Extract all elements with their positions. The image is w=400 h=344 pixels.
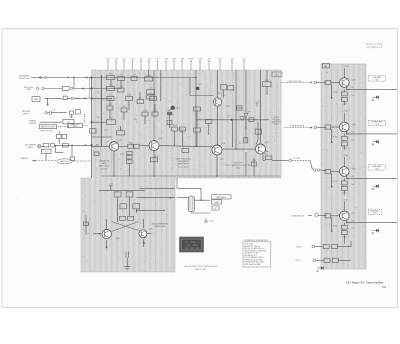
wire lamp top <box>177 187 201 189</box>
junction <box>101 98 102 99</box>
wire link <box>236 107 242 109</box>
wire row4 <box>343 223 345 226</box>
junction <box>67 77 68 78</box>
resistor R28 <box>172 127 178 131</box>
resistor R51 <box>114 192 121 197</box>
svg-text:+: + <box>136 152 137 154</box>
svg-text:R153: R153 <box>226 106 230 108</box>
wire stub down <box>266 86 268 95</box>
wire <box>123 112 125 120</box>
resistor to ground trig row <box>69 111 73 118</box>
wire Q7 emitter <box>143 239 145 247</box>
wire bias drop row4 <box>331 218 333 230</box>
wire <box>196 132 198 146</box>
wire Q5 collector up <box>260 70 262 144</box>
resistor R21 <box>221 84 227 90</box>
svg-text:R147: R147 <box>173 125 177 127</box>
wire bottom bus <box>102 175 281 177</box>
label box SWEEP GATE <box>32 97 40 102</box>
emitter resistor row1b <box>341 97 347 101</box>
dashed wire row2 input <box>284 127 312 129</box>
wire link rows <box>73 78 75 89</box>
svg-text:R169: R169 <box>252 160 256 162</box>
connector row6 <box>313 259 316 262</box>
ground dot row2 <box>331 141 333 143</box>
wire Q7 collector <box>143 219 145 228</box>
wire row3 into base <box>320 169 327 172</box>
transistor Q6 <box>102 229 111 238</box>
resistor R124 <box>137 100 144 104</box>
label box AC <box>42 149 51 153</box>
wire drop <box>189 78 191 96</box>
resistor row5 b <box>332 244 338 248</box>
junction <box>217 144 218 145</box>
wire lamp left <box>177 197 188 199</box>
capacitor C3 box <box>70 157 75 161</box>
wire row1 <box>343 89 345 92</box>
svg-text:1.8k: 1.8k <box>351 139 354 141</box>
power stub +12V at x=220 <box>219 61 221 71</box>
svg-text:Q185: Q185 <box>116 238 120 240</box>
transistor Q205 <box>340 78 350 88</box>
wire drop <box>47 98 49 105</box>
transistor Q3 <box>213 98 221 106</box>
svg-text:C43: C43 <box>119 86 122 88</box>
wire <box>117 197 119 222</box>
junction Q7 emitter <box>143 242 145 244</box>
output label box row1 <box>368 76 385 81</box>
junction ext row <box>71 145 72 146</box>
power stub +150 at x=124 <box>123 61 125 71</box>
wire <box>109 99 111 106</box>
wire mid bus <box>196 119 269 121</box>
svg-text:R121: R121 <box>109 74 113 76</box>
board label box A2 <box>322 63 329 68</box>
wire output row4 <box>347 222 397 224</box>
connector hook row6 <box>317 266 324 272</box>
base resistor row4 <box>325 214 331 218</box>
svg-text:+150V: +150V <box>343 111 349 113</box>
resistor R14 <box>147 90 155 94</box>
reference designations notes box <box>243 242 271 267</box>
arrowhead down <box>47 104 49 106</box>
wire <box>120 126 122 131</box>
svg-text:R157: R157 <box>265 80 269 82</box>
svg-text:R47: R47 <box>108 104 111 106</box>
svg-text:Q225: Q225 <box>352 169 356 171</box>
power stub +12V at x=174 <box>173 61 175 71</box>
stub cap <box>109 185 113 187</box>
svg-text:R159: R159 <box>264 154 268 156</box>
wire row C <box>92 98 113 100</box>
svg-text:12: 12 <box>239 143 241 145</box>
wire bus x160 <box>160 70 162 101</box>
resistor R7 <box>62 134 67 138</box>
arrowhead down Q6 <box>106 247 108 249</box>
arrowhead <box>85 144 87 146</box>
svg-text:RESISTORS 1/4W 5%: RESISTORS 1/4W 5% <box>244 246 260 248</box>
wire row3 down <box>343 190 345 194</box>
label box SAW AMPLITUDE <box>212 195 232 199</box>
junction <box>216 175 217 176</box>
wire down to junction <box>200 188 202 200</box>
connector hook row2 <box>372 140 379 146</box>
wire main path seg3 <box>139 145 149 147</box>
wire collector row2 <box>343 113 345 123</box>
resistor R13 <box>145 77 153 81</box>
output label box row4 <box>368 209 381 214</box>
svg-text:+150V: +150V <box>343 66 349 68</box>
svg-text:R131: R131 <box>108 95 112 97</box>
wire drop to Q4 <box>232 120 234 147</box>
edge junction tick <box>91 88 93 90</box>
connector J2a <box>37 87 39 89</box>
resistor R54 <box>120 204 127 209</box>
wire Q3 emitter down <box>217 106 219 145</box>
pot box R5 <box>63 120 74 124</box>
wire left <box>85 215 87 235</box>
transistor Q5 <box>256 144 266 154</box>
resistor R19 <box>117 131 125 135</box>
svg-text:+150V: +150V <box>343 199 349 201</box>
wire to block <box>47 77 92 79</box>
connector J4 inner <box>39 146 41 148</box>
svg-text:R143: R143 <box>129 142 133 144</box>
transistor Q7 <box>139 230 147 238</box>
connector hook row3 <box>372 184 379 190</box>
wire row A <box>92 77 197 79</box>
capacitor C122 <box>118 88 125 92</box>
bus wire vertical left <box>101 75 103 146</box>
shaded region: main amplifier block <box>81 70 281 272</box>
output label box row2 <box>368 120 385 125</box>
svg-text:Q195: Q195 <box>149 229 153 231</box>
resistor R165 <box>237 106 242 110</box>
wire lamp right <box>195 199 211 201</box>
wire row3 <box>343 178 345 181</box>
svg-text:-150V: -150V <box>342 237 348 239</box>
svg-text:UNLESS NOTED OTHERWISE: UNLESS NOTED OTHERWISE <box>244 250 266 252</box>
emitter resistor row3b <box>341 186 347 190</box>
wire row5 into column <box>338 246 352 248</box>
wire main path seg5 <box>222 148 255 150</box>
resistor R126 <box>107 106 113 110</box>
wire down <box>253 158 255 176</box>
wire <box>44 88 62 90</box>
resistor R34 <box>151 158 158 162</box>
svg-text:+150V: +150V <box>343 155 349 157</box>
wire <box>196 111 198 128</box>
wire collector row3 <box>343 157 345 167</box>
resistor R138 <box>167 121 172 125</box>
wire Q4 emitter down <box>216 155 218 176</box>
svg-text:C151: C151 <box>197 84 201 86</box>
svg-text:R 10k: R 10k <box>333 181 338 183</box>
wire <box>191 212 210 214</box>
wire <box>129 197 131 216</box>
wire bend <box>310 160 313 169</box>
transistor Q225 <box>340 167 350 177</box>
wire drop ext <box>71 145 73 157</box>
resistor R9 <box>51 144 55 147</box>
svg-text:C141: C141 <box>118 129 122 131</box>
wire <box>144 116 146 124</box>
wire <box>318 215 326 217</box>
wire link <box>223 90 225 98</box>
arrowhead <box>170 197 172 199</box>
wire emitter row4 <box>346 219 348 222</box>
wire row5 up <box>350 241 352 247</box>
wire to block <box>73 88 92 90</box>
wire link <box>110 80 112 87</box>
svg-text:-150V: -150V <box>342 148 348 150</box>
wire bias drop row2 <box>331 129 333 141</box>
svg-text:SAWTOOTH SWP: SAWTOOTH SWP <box>41 126 56 129</box>
nameplate dark box <box>180 238 203 252</box>
wire to ground <box>126 258 128 267</box>
arrowhead row2 <box>310 127 312 129</box>
wire <box>120 81 122 89</box>
emitter resistor row4a <box>341 225 347 229</box>
connector node SAW <box>289 159 292 162</box>
resistor R3 <box>63 96 67 100</box>
resistor row5 a <box>323 244 329 248</box>
svg-text:R141: R141 <box>109 118 113 120</box>
wire diag to tp <box>169 109 173 112</box>
svg-text:Serial no. 4747 AA7 figure 8-: Serial no. 4747 AA7 figure 8-2 <box>366 43 383 49</box>
resistor R32 <box>127 156 133 159</box>
connector row4 <box>315 213 318 216</box>
dashed wire row3 <box>292 159 310 161</box>
wire internal <box>136 210 165 212</box>
power stub +12V at x=149 <box>148 61 150 71</box>
svg-text:1.8k: 1.8k <box>351 95 354 97</box>
svg-text:R125: R125 <box>146 75 150 77</box>
svg-text:R49: R49 <box>122 106 125 108</box>
wire collector row4 <box>343 201 345 211</box>
svg-text:CR1: CR1 <box>247 112 251 114</box>
supply tick +12V <box>256 104 258 108</box>
test point circled dot <box>171 106 175 110</box>
wire <box>41 145 44 147</box>
svg-text:R133: R133 <box>127 95 131 97</box>
transistor Q2 <box>149 141 159 151</box>
wire row4 <box>308 215 312 217</box>
svg-text:SWEEPLENGTH: SWEEPLENGTH <box>29 121 37 125</box>
junction <box>235 148 236 149</box>
wire link left margin <box>88 78 90 99</box>
wire supply stub <box>110 186 112 191</box>
wire <box>182 131 184 146</box>
svg-text:Q235: Q235 <box>351 213 355 215</box>
svg-text:C41: C41 <box>132 75 135 77</box>
wire <box>40 121 63 123</box>
wire down <box>67 124 69 128</box>
label box DC <box>212 206 219 210</box>
wire row5 <box>315 246 323 248</box>
wire gate row <box>44 97 62 99</box>
svg-text:-150: -150 <box>139 58 143 60</box>
svg-text:R137: R137 <box>120 154 124 156</box>
wire Q2 emitter down <box>153 151 155 176</box>
resistor R16 <box>126 96 133 100</box>
shaded region: output board A2 column <box>321 64 366 269</box>
svg-text:8-9: 8-9 <box>382 285 386 289</box>
wire exit to lamp <box>136 197 175 199</box>
wire base row3 <box>331 171 340 173</box>
wire collector row1 <box>343 68 345 78</box>
oval label SAWTOOTH <box>57 159 73 164</box>
connector J1a <box>39 76 41 78</box>
resistor R11 <box>107 75 115 79</box>
label box GAIN <box>211 200 221 204</box>
resistor R52 <box>126 192 133 197</box>
vertical dashed link <box>84 114 86 124</box>
power stub +150 at x=166 <box>165 61 167 71</box>
svg-text:SELECTOR SW: SELECTOR SW <box>40 131 53 133</box>
svg-text:C125: C125 <box>148 88 152 90</box>
wire int sweep <box>31 77 44 79</box>
wire base row1 <box>331 82 340 84</box>
junction <box>153 175 154 176</box>
resistor R18 <box>107 120 116 125</box>
wire <box>154 104 156 112</box>
junction <box>195 146 196 147</box>
wire <box>174 131 176 146</box>
wire CR1 lower <box>245 117 247 142</box>
wire ext sweep to block <box>54 144 91 146</box>
resistor R36 <box>265 156 272 160</box>
junction <box>346 222 347 223</box>
wire <box>58 131 60 134</box>
base resistor row1 <box>325 80 331 84</box>
svg-text:1.8k: 1.8k <box>351 228 354 230</box>
resistor R161 <box>194 107 201 111</box>
svg-text:C121: C121 <box>109 85 113 87</box>
resistor R10 <box>62 144 68 147</box>
edge junction tick <box>91 77 93 79</box>
junction <box>73 77 74 78</box>
svg-text:-150V: -150V <box>342 192 348 194</box>
connector <box>71 87 73 89</box>
svg-text:FRAME DRIVE: FRAME DRIVE <box>291 125 305 128</box>
svg-text:+12V: +12V <box>109 184 114 186</box>
svg-text:C45: C45 <box>96 92 99 94</box>
connector J3 <box>45 112 47 114</box>
wire <box>58 138 60 144</box>
svg-text:+12V: +12V <box>209 221 214 223</box>
wire <box>317 127 327 129</box>
arrowhead row1 <box>310 82 312 84</box>
wire jog down <box>55 145 57 152</box>
resistor R12 <box>107 86 115 90</box>
wire <box>135 209 137 213</box>
diode CR1 <box>244 114 248 117</box>
svg-text:REFERENCE DESIGNATIONS: REFERENCE DESIGNATIONS <box>245 239 269 242</box>
thermistor RT1 (lamp cylinder) <box>188 196 194 212</box>
edge junction tick <box>91 97 93 99</box>
svg-text:TP 47: TP 47 <box>176 108 181 110</box>
svg-text:R 10k: R 10k <box>333 92 338 94</box>
svg-text:R139: R139 <box>155 156 159 158</box>
arrowhead left <box>33 160 35 162</box>
wire lamp bottom <box>190 212 192 213</box>
resistor R17 <box>150 96 157 100</box>
ground symbol lamp <box>204 218 208 222</box>
svg-text:SAWTOOTH: SAWTOOTH <box>60 160 70 163</box>
wire row D <box>92 121 107 123</box>
svg-text:-150V: -150V <box>342 103 348 105</box>
output label box row3 <box>368 165 385 170</box>
junction <box>346 178 347 179</box>
wire jog right <box>56 152 64 154</box>
wire <box>109 110 111 118</box>
svg-text:+150: +150 <box>242 58 246 60</box>
capacitor C1 <box>50 111 52 115</box>
svg-text:C40: C40 <box>52 109 55 111</box>
resistor R31 <box>127 151 133 154</box>
power stub -150 at x=141 <box>140 61 142 71</box>
wire down from AC <box>45 154 47 161</box>
scan noise speckles <box>82 71 365 271</box>
svg-text:AA7 Figure 8-2. Saw Amplifier: AA7 Figure 8-2. Saw Amplifier <box>346 280 383 284</box>
svg-text:R41: R41 <box>119 75 122 77</box>
svg-text:Q135: Q135 <box>118 140 122 142</box>
svg-text:1.8k: 1.8k <box>351 184 354 186</box>
resistor R15 <box>107 96 114 100</box>
resistor R56 <box>120 216 126 220</box>
svg-text:C157: C157 <box>220 159 224 161</box>
connector row3 a <box>314 169 316 171</box>
wire row4 down <box>343 235 345 239</box>
svg-text:Q143: Q143 <box>158 138 162 140</box>
wire exit upper <box>140 187 175 189</box>
wire Q5 emitter <box>266 151 268 153</box>
power stub +150V at x=191 <box>190 61 192 71</box>
resistor R129 <box>152 112 158 116</box>
wire output row3 <box>347 177 397 179</box>
wire to Q5 base <box>256 140 258 145</box>
resistor R163 <box>206 120 213 124</box>
power stub -12V at x=182 <box>181 61 183 71</box>
wire Q7 out right <box>147 232 152 234</box>
resistor R162 <box>194 128 201 132</box>
wire emitter row3 <box>346 175 348 178</box>
wire Q6 emitter <box>106 240 108 247</box>
connector row2 <box>314 126 317 129</box>
wire row6 <box>316 259 324 261</box>
wire main path seg2 <box>119 145 128 147</box>
resistor R29 <box>180 127 186 131</box>
svg-text:R51: R51 <box>143 110 146 112</box>
power stub -12V at x=157.5 <box>156 61 158 71</box>
svg-text:TO CRT: TO CRT <box>293 158 301 160</box>
wire stub <box>266 70 268 82</box>
power stub +12V at x=108 <box>107 61 109 71</box>
dashed link2 <box>83 125 89 127</box>
resistor R173 <box>244 138 248 143</box>
transistor Q215 <box>340 122 350 132</box>
resistor R23 <box>263 82 272 87</box>
wire bias drop row3 <box>331 174 333 186</box>
svg-text:L MANUAL: L MANUAL <box>20 157 29 160</box>
ground dot row4 <box>331 230 333 232</box>
wire down <box>245 152 247 176</box>
selector box SEL <box>249 118 254 122</box>
svg-text:Q215: Q215 <box>352 124 356 126</box>
wire stub <box>176 178 178 188</box>
arrow on mid bus <box>231 119 234 121</box>
